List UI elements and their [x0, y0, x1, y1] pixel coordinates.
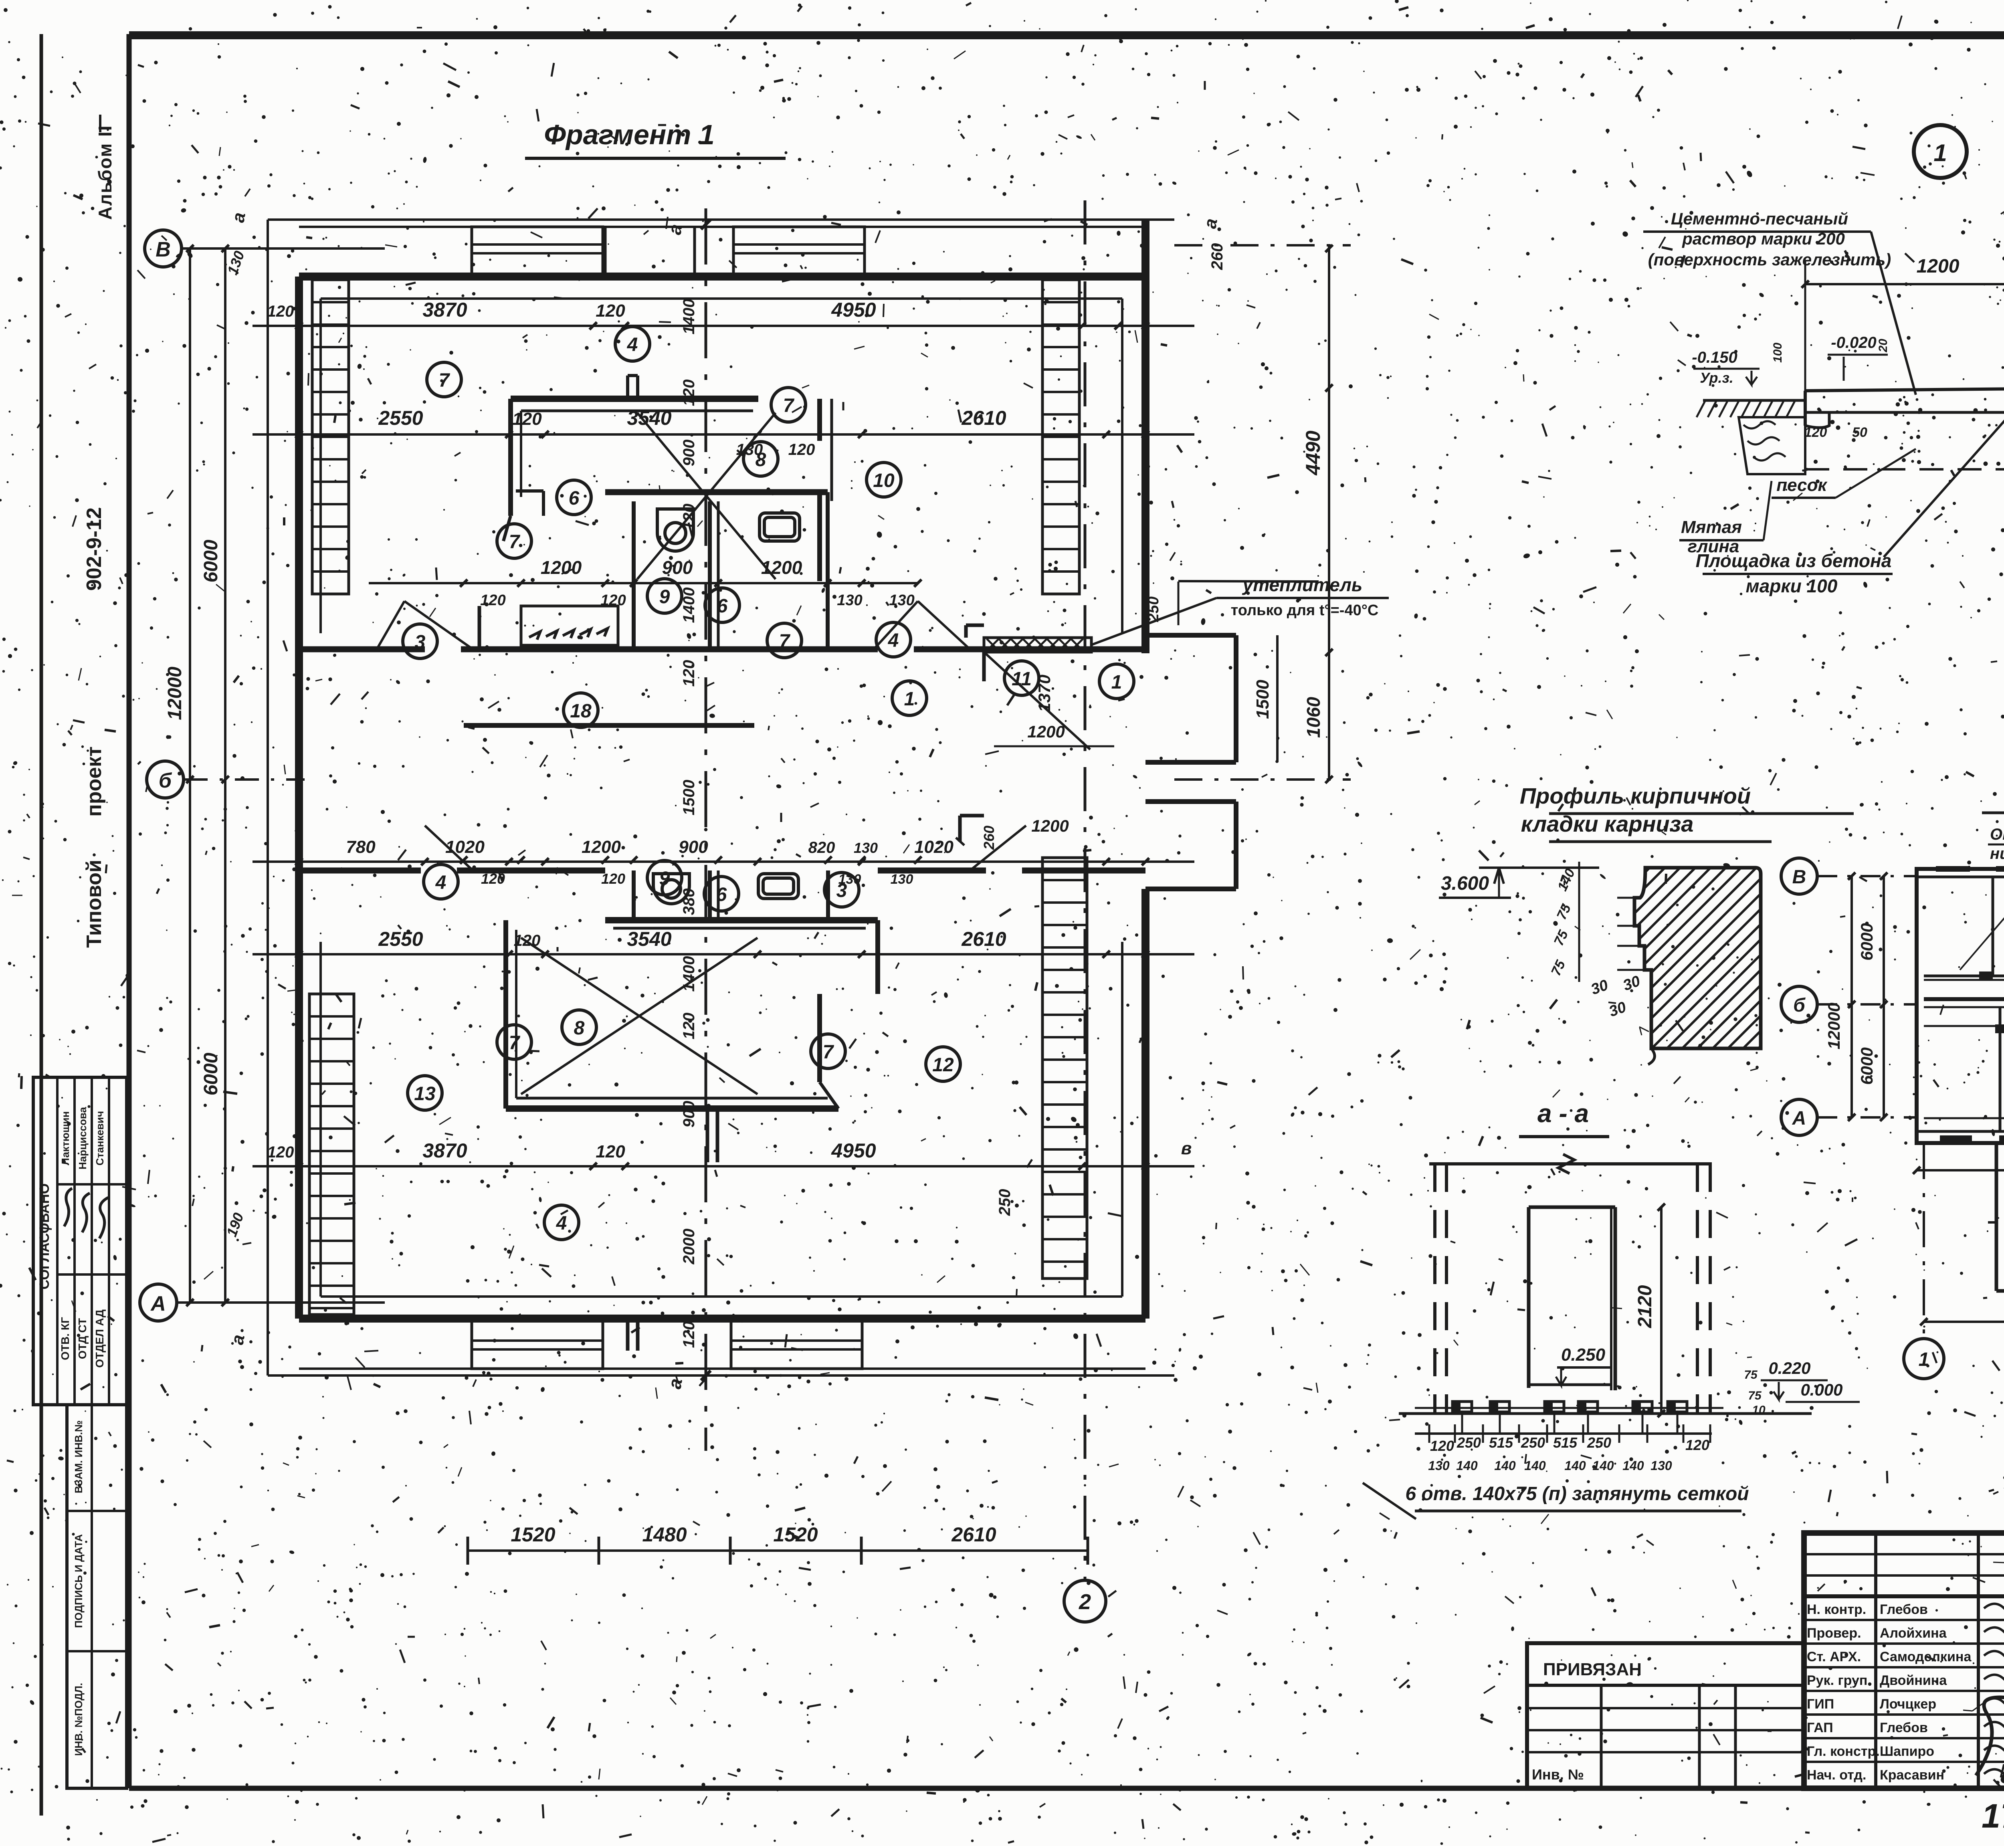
svg-text:Инв. №: Инв. № — [1532, 1766, 1584, 1783]
svg-text:130: 130 — [837, 592, 862, 609]
svg-text:раствор марки 200: раствор марки 200 — [1682, 229, 1845, 248]
svg-text:2000: 2000 — [680, 1229, 698, 1265]
svg-text:В: В — [1792, 866, 1806, 888]
svg-text:Рук. груп.: Рук. груп. — [1807, 1673, 1871, 1688]
svg-text:Альбом II: Альбом II — [95, 125, 115, 220]
svg-text:120: 120 — [267, 303, 294, 320]
svg-text:А: А — [1792, 1108, 1806, 1129]
svg-text:120: 120 — [596, 301, 625, 321]
svg-text:10: 10 — [873, 470, 895, 491]
svg-text:Самоделкина: Самоделкина — [1880, 1649, 1972, 1664]
svg-text:ИНВ. №ПОДЛ.: ИНВ. №ПОДЛ. — [73, 1683, 85, 1756]
svg-text:17672-02 24: 17672-02 24 — [1982, 1797, 2004, 1835]
svg-text:Ст. АРХ.: Ст. АРХ. — [1807, 1649, 1861, 1664]
svg-text:120: 120 — [680, 380, 698, 406]
svg-text:0.000: 0.000 — [1800, 1380, 1842, 1399]
svg-text:только для t°=-40°C: только для t°=-40°C — [1231, 602, 1379, 619]
svg-text:820: 820 — [808, 839, 835, 856]
svg-text:7: 7 — [509, 531, 521, 553]
svg-text:Глебов: Глебов — [1880, 1720, 1928, 1735]
svg-text:3: 3 — [415, 632, 426, 653]
svg-text:1: 1 — [1933, 139, 1947, 166]
svg-text:260: 260 — [981, 826, 997, 850]
svg-text:Глебов: Глебов — [1880, 1602, 1928, 1617]
svg-text:Шапиро: Шапиро — [1880, 1744, 1934, 1759]
svg-text:Гл. констр.: Гл. констр. — [1807, 1744, 1880, 1759]
svg-text:1200: 1200 — [1031, 816, 1069, 835]
svg-text:13: 13 — [414, 1083, 436, 1105]
svg-text:130: 130 — [889, 592, 914, 609]
svg-text:4: 4 — [627, 334, 638, 355]
svg-text:1480: 1480 — [642, 1523, 687, 1546]
svg-text:3: 3 — [836, 880, 847, 901]
svg-text:Фрагмент 1: Фрагмент 1 — [544, 119, 715, 150]
svg-text:9: 9 — [659, 586, 670, 608]
svg-text:А: А — [150, 1292, 166, 1315]
svg-text:4: 4 — [435, 872, 446, 893]
svg-text:120: 120 — [1804, 425, 1827, 440]
svg-text:песок: песок — [1776, 475, 1828, 495]
svg-text:120: 120 — [480, 592, 505, 609]
svg-text:250: 250 — [1457, 1434, 1481, 1451]
svg-text:Нач. отд.: Нач. отд. — [1807, 1767, 1866, 1783]
svg-text:3540: 3540 — [627, 928, 671, 950]
svg-text:120: 120 — [680, 1321, 698, 1348]
svg-text:6000: 6000 — [1857, 923, 1876, 960]
svg-text:3870: 3870 — [422, 299, 467, 321]
svg-text:1: 1 — [904, 689, 915, 710]
svg-text:18: 18 — [570, 701, 592, 722]
svg-text:6: 6 — [716, 884, 727, 905]
svg-text:СОГЛАСОВАНО: СОГЛАСОВАНО — [37, 1184, 52, 1290]
svg-text:1020: 1020 — [914, 837, 954, 857]
svg-text:120: 120 — [596, 1142, 625, 1161]
svg-text:4490: 4490 — [1302, 430, 1324, 475]
svg-text:1020: 1020 — [445, 837, 485, 857]
svg-text:140: 140 — [1592, 1458, 1614, 1473]
svg-text:Ур.з.: Ур.з. — [1700, 370, 1733, 386]
svg-text:Провер.: Провер. — [1807, 1626, 1861, 1641]
svg-text:3540: 3540 — [627, 407, 671, 429]
svg-text:6: 6 — [569, 488, 580, 509]
svg-text:2: 2 — [1079, 1590, 1091, 1614]
svg-text:ОТД СТ: ОТД СТ — [76, 1318, 89, 1359]
svg-text:6 отв. 140х75 (п) затянуть с: 6 отв. 140х75 (п) затянуть сеткой — [1405, 1483, 1749, 1505]
svg-text:120: 120 — [600, 592, 626, 609]
svg-text:130: 130 — [1428, 1458, 1450, 1473]
svg-text:2610: 2610 — [961, 407, 1006, 429]
svg-text:515: 515 — [1553, 1434, 1578, 1451]
svg-text:260: 260 — [1208, 243, 1226, 271]
svg-text:1400: 1400 — [680, 299, 698, 335]
svg-text:6: 6 — [717, 596, 728, 617]
svg-text:120: 120 — [1685, 1437, 1709, 1453]
svg-text:900: 900 — [680, 1101, 698, 1128]
svg-text:9: 9 — [659, 868, 670, 889]
svg-text:1: 1 — [1111, 672, 1122, 693]
svg-text:4: 4 — [888, 630, 899, 651]
svg-text:250: 250 — [1521, 1434, 1545, 1451]
svg-text:6000: 6000 — [200, 539, 222, 582]
svg-text:140: 140 — [1622, 1458, 1644, 1473]
svg-text:130: 130 — [854, 840, 878, 856]
svg-text:120: 120 — [512, 409, 542, 429]
svg-text:Н. контр.: Н. контр. — [1807, 1602, 1866, 1617]
svg-text:2610: 2610 — [961, 928, 1006, 950]
svg-text:1060: 1060 — [1303, 697, 1324, 738]
svg-text:Станкевич: Станкевич — [94, 1111, 106, 1165]
svg-text:Красавин: Красавин — [1880, 1767, 1944, 1783]
svg-text:марки 100: марки 100 — [1746, 576, 1838, 596]
svg-text:380: 380 — [680, 889, 698, 915]
svg-text:а - а: а - а — [1537, 1099, 1589, 1128]
svg-text:120: 120 — [601, 870, 625, 887]
svg-text:Цементно-песчаный: Цементно-песчаный — [1671, 209, 1848, 228]
svg-text:7: 7 — [823, 1042, 834, 1063]
svg-text:140: 140 — [1564, 1458, 1586, 1473]
svg-text:0.250: 0.250 — [1561, 1345, 1606, 1365]
svg-text:б: б — [1793, 995, 1806, 1016]
svg-text:2550: 2550 — [378, 928, 423, 950]
svg-text:б: б — [159, 769, 172, 792]
svg-text:Отв. 325х325: Отв. 325х325 — [1990, 826, 2004, 843]
svg-text:Лочцкер: Лочцкер — [1880, 1697, 1936, 1712]
svg-text:7: 7 — [779, 631, 791, 652]
svg-text:7: 7 — [783, 395, 795, 416]
svg-text:в: в — [1181, 1139, 1192, 1158]
svg-text:4: 4 — [556, 1213, 567, 1234]
svg-text:1520: 1520 — [773, 1523, 818, 1546]
svg-text:ВЗАМ. ИНВ.№: ВЗАМ. ИНВ.№ — [73, 1420, 85, 1493]
svg-text:Лактюшин: Лактюшин — [59, 1111, 71, 1165]
svg-text:120: 120 — [680, 660, 698, 687]
svg-text:ПОДПИСЬ И ДАТА: ПОДПИСЬ И ДАТА — [73, 1534, 85, 1628]
svg-text:130: 130 — [891, 872, 913, 887]
svg-text:1520: 1520 — [511, 1523, 555, 1546]
svg-text:1200: 1200 — [1027, 722, 1065, 741]
svg-text:ОТВ. КГ: ОТВ. КГ — [59, 1317, 71, 1360]
svg-text:12: 12 — [932, 1054, 954, 1076]
svg-text:1200: 1200 — [1917, 256, 1960, 277]
svg-text:120: 120 — [788, 441, 815, 458]
svg-text:1200: 1200 — [582, 837, 621, 857]
svg-text:8: 8 — [574, 1018, 585, 1039]
svg-text:6000: 6000 — [1857, 1047, 1876, 1085]
svg-text:Типовой: Типовой — [83, 860, 106, 948]
svg-text:1500: 1500 — [680, 780, 698, 816]
svg-text:900: 900 — [680, 440, 698, 467]
svg-text:ОТДЕЛ АД: ОТДЕЛ АД — [93, 1309, 106, 1367]
svg-text:1400: 1400 — [680, 956, 698, 992]
svg-text:Нарциссова: Нарциссова — [77, 1107, 89, 1169]
svg-text:140: 140 — [1494, 1458, 1516, 1473]
svg-text:1500: 1500 — [1253, 680, 1273, 719]
svg-text:20: 20 — [1877, 339, 1890, 353]
svg-text:3870: 3870 — [422, 1139, 467, 1162]
svg-text:120: 120 — [267, 1143, 294, 1161]
svg-text:проект: проект — [83, 746, 106, 816]
svg-text:1200: 1200 — [761, 557, 802, 578]
svg-text:-0.150: -0.150 — [1692, 349, 1737, 366]
svg-text:В: В — [156, 238, 171, 261]
svg-text:Мятая: Мятая — [1681, 517, 1742, 537]
svg-text:902-9-12: 902-9-12 — [83, 507, 106, 591]
svg-text:2550: 2550 — [378, 407, 423, 429]
svg-text:-0.020: -0.020 — [1831, 334, 1876, 351]
svg-text:75: 75 — [1748, 1389, 1762, 1402]
svg-text:утеплитель: утеплитель — [1242, 574, 1363, 595]
svg-text:515: 515 — [1489, 1434, 1513, 1451]
svg-text:250: 250 — [1587, 1434, 1611, 1451]
svg-text:ГАП: ГАП — [1807, 1720, 1833, 1735]
svg-text:ГИП: ГИП — [1807, 1697, 1834, 1712]
svg-text:900: 900 — [662, 557, 693, 578]
svg-text:6000: 6000 — [200, 1052, 222, 1095]
svg-text:130: 130 — [1650, 1458, 1672, 1473]
svg-text:2120: 2120 — [1634, 1285, 1656, 1328]
svg-text:120: 120 — [514, 932, 541, 949]
svg-text:780: 780 — [346, 837, 376, 857]
svg-text:2610: 2610 — [951, 1523, 996, 1546]
svg-text:4950: 4950 — [831, 299, 876, 321]
svg-text:11: 11 — [1012, 669, 1032, 690]
svg-text:ПРИВЯЗАН: ПРИВЯЗАН — [1543, 1660, 1642, 1679]
svg-text:низ на отм. 2.550: низ на отм. 2.550 — [1990, 845, 2004, 862]
svg-text:12000: 12000 — [1824, 1003, 1843, 1050]
svg-text:140: 140 — [1524, 1458, 1546, 1473]
svg-text:1200: 1200 — [541, 557, 582, 578]
svg-text:120: 120 — [680, 1013, 698, 1040]
svg-text:10: 10 — [1752, 1404, 1766, 1417]
svg-text:3.600: 3.600 — [1441, 873, 1489, 894]
svg-text:4950: 4950 — [831, 1139, 876, 1162]
svg-text:0.220: 0.220 — [1768, 1359, 1810, 1377]
svg-text:Алойхина: Алойхина — [1880, 1626, 1947, 1641]
svg-text:75: 75 — [1744, 1368, 1758, 1381]
svg-text:100: 100 — [1771, 343, 1784, 363]
svg-text:кладки карниза: кладки карниза — [1521, 811, 1694, 836]
svg-text:8: 8 — [756, 449, 766, 471]
svg-text:140: 140 — [1456, 1458, 1478, 1473]
svg-text:900: 900 — [679, 837, 708, 857]
svg-text:120: 120 — [1430, 1438, 1454, 1454]
